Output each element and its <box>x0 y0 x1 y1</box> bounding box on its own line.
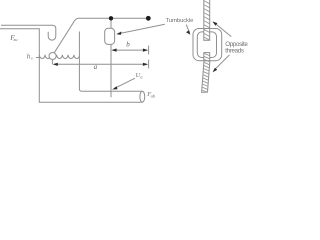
svg-text:Turnbuckle: Turnbuckle <box>166 18 195 24</box>
svg-text:b: b <box>126 41 130 49</box>
svg-text:threads: threads <box>225 47 244 54</box>
svg-text:ab: ab <box>151 94 156 99</box>
svg-text:zu: zu <box>13 37 19 42</box>
svg-text:a: a <box>94 63 98 71</box>
svg-text:s: s <box>31 55 33 60</box>
